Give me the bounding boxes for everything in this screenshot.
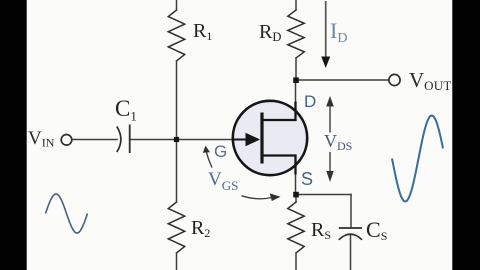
wire drain node to Vout terminal xyxy=(296,79,389,81)
wire Vin to C1 xyxy=(73,139,118,141)
junction node at source xyxy=(293,192,299,198)
wire RD top lead xyxy=(295,0,297,10)
annotation arrow VGS up (at gate) xyxy=(203,146,212,168)
wire gate node down to R2 xyxy=(176,140,178,203)
capacitor Cs curved plate xyxy=(339,234,362,240)
left letterbox bar xyxy=(0,0,27,270)
terminal circle VIN xyxy=(61,135,72,146)
label CS xyxy=(366,217,387,244)
mosfet drain arm xyxy=(262,102,296,121)
wire R1 bottom to gate node xyxy=(176,61,178,140)
mosfet gate arrow xyxy=(246,133,261,147)
dimension arrow VDS upper xyxy=(326,96,334,133)
label R1 xyxy=(193,20,212,44)
mosfet Q1 body circle xyxy=(233,101,307,175)
wire source node down to RS xyxy=(295,195,297,203)
wire Cs bottom lead xyxy=(350,235,352,270)
label VDS xyxy=(324,131,352,154)
capacitor C1 curved plate xyxy=(117,127,121,153)
capacitor C1 straight plate xyxy=(129,125,131,154)
wire source node to Cs branch xyxy=(296,194,351,196)
annotation curved arrow VGS to source xyxy=(242,193,281,201)
mosfet source arm xyxy=(262,156,296,175)
resistor RD xyxy=(288,10,304,58)
terminal circle VOUT xyxy=(389,74,400,85)
right letterbox bar xyxy=(452,0,480,270)
junction node at drain xyxy=(293,77,299,83)
wire RS bottom lead xyxy=(295,253,297,270)
label G xyxy=(214,142,227,162)
label ID xyxy=(330,18,347,47)
resistor RS xyxy=(288,202,304,253)
label RS xyxy=(311,219,331,243)
label VGS xyxy=(208,169,238,194)
wire source elbow down to source node xyxy=(295,156,297,195)
dimension arrow VDS lower xyxy=(326,152,333,182)
wire drain node to mosfet drain xyxy=(295,80,297,120)
wire RD bottom to drain node xyxy=(295,58,297,80)
current arrow ID xyxy=(321,1,330,68)
mosfet gate lead inside circle xyxy=(233,139,247,141)
label VIN xyxy=(28,128,54,151)
mosfet channel bar xyxy=(260,113,263,164)
label RD xyxy=(259,21,281,45)
resistor R1 xyxy=(168,10,184,61)
resistor R2 xyxy=(168,202,184,253)
input sine wave xyxy=(46,194,88,233)
output sine wave xyxy=(392,116,443,202)
label S xyxy=(301,169,313,190)
label R2 xyxy=(191,217,210,241)
wire R1 top lead xyxy=(176,0,178,10)
junction node at gate bias xyxy=(174,137,179,142)
wire R2 bottom lead xyxy=(176,253,178,270)
wire C1 to gate xyxy=(130,139,233,141)
label C1 xyxy=(115,96,137,125)
label D xyxy=(304,92,316,112)
wire Cs top lead xyxy=(350,195,352,228)
capacitor Cs straight plate xyxy=(339,227,362,229)
label VOUT xyxy=(409,68,452,94)
